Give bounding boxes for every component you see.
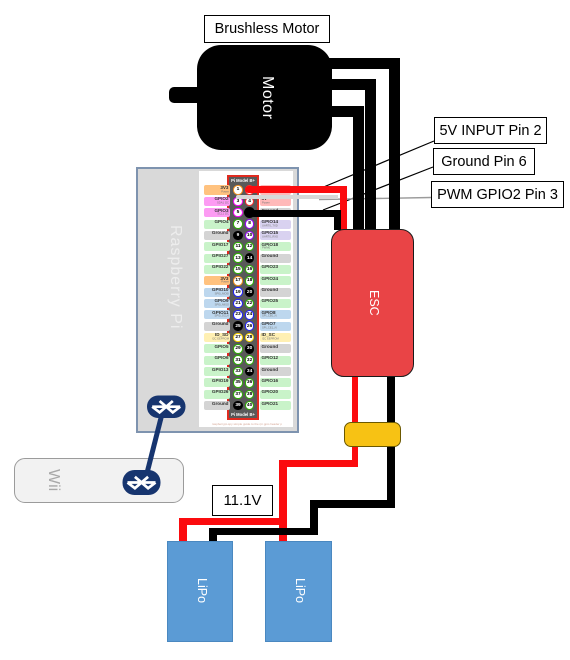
- pin 18: [245, 276, 255, 286]
- bullet connector (yellow): [344, 422, 402, 447]
- pin label right row 15: Ground: [260, 344, 291, 353]
- battery wire red: ESC to connector: [352, 377, 359, 467]
- Raspberry Pi board box: [136, 167, 299, 433]
- pin 39: [233, 401, 243, 411]
- motor phase wire 3 vertical: [353, 106, 364, 230]
- battery wire black: connector to corner: [387, 377, 395, 507]
- pin label left row 15: GPIO5: [204, 344, 231, 353]
- ground wire (black) from pin 6 horizontal: [250, 210, 341, 217]
- GPIO header column (red box): [227, 175, 259, 420]
- brushless motor label box: [204, 15, 330, 43]
- battery wire black: horizontal at y500: [310, 500, 395, 508]
- motor body: [197, 45, 332, 150]
- 5V wire (red) vertical to ESC: [340, 186, 347, 230]
- pin 27: [233, 333, 243, 343]
- pin 11: [233, 242, 243, 252]
- pin 12: [245, 242, 255, 252]
- Raspberry Pi label text: [164, 207, 184, 347]
- pin label left row 13: Ground: [204, 322, 231, 331]
- bluetooth link line: [147, 412, 163, 475]
- motor phase wire 3 horizontal: [325, 106, 364, 117]
- motor phase wire 1 horizontal: [325, 58, 400, 69]
- pin label right row 13: GPIO7: [260, 322, 291, 331]
- pin 17: [233, 276, 243, 286]
- pin label left row 17: GPIO13: [204, 367, 231, 376]
- pin 6 connection blob: [244, 207, 255, 218]
- bluetooth icon on Raspberry Pi: [147, 396, 186, 419]
- motor phase wire 1 vertical: [389, 58, 400, 230]
- LiPo battery left: [167, 541, 233, 642]
- battery wire black: vertical at x310: [310, 500, 318, 535]
- pin 32: [245, 355, 255, 365]
- pin 24: [245, 310, 255, 320]
- pin label left row 7: GPIO27: [204, 254, 231, 263]
- battery wire red: horizontal at y460: [279, 460, 358, 467]
- LiPo left label: [191, 570, 209, 612]
- motor shaft: [169, 87, 203, 103]
- pin 28: [245, 333, 255, 343]
- pin label right row 3: Ground: [260, 208, 291, 217]
- pin label right row 12: GPIO8: [260, 310, 291, 319]
- leader line for PWM GPIO2 Pin 3: [319, 198, 431, 200]
- pin label left row 14: ID_SD: [204, 333, 231, 342]
- pin label left row 9: 3V3: [204, 276, 231, 285]
- pin label left row 12: GPIO11: [204, 310, 231, 319]
- pin 8: [245, 219, 255, 229]
- pinout caption: [212, 422, 282, 426]
- pin label right row 6: GPIO18: [260, 242, 291, 251]
- battery wire red: vertical to right LiPo: [279, 460, 287, 542]
- signal wire (white/gray) from pin 3: [236, 195, 338, 199]
- pin 38: [245, 390, 255, 400]
- pin label right row 10: Ground: [260, 288, 291, 297]
- pin 21: [233, 299, 243, 309]
- pin 33: [233, 367, 243, 377]
- pin label left row 8: GPIO22: [204, 265, 231, 274]
- pin 3: [233, 197, 243, 207]
- pin 1: [233, 185, 243, 195]
- pin label right row 7: Ground: [260, 254, 291, 263]
- pin 37: [233, 390, 243, 400]
- battery wire black: horizontal at y527: [209, 528, 318, 536]
- motor phase wire 2 vertical: [365, 79, 376, 230]
- pin label right row 4: GPIO14: [260, 220, 291, 229]
- LiPo battery right: [265, 541, 332, 642]
- pin 16: [245, 265, 255, 275]
- leader line for Ground Pin 6: [323, 167, 433, 210]
- pin 9: [233, 231, 243, 241]
- pin 36: [245, 378, 255, 388]
- pin 14: [245, 253, 255, 263]
- pin 20: [245, 287, 255, 297]
- pin 23: [233, 310, 243, 320]
- pin label right row 16: GPIO12: [260, 356, 291, 365]
- pin label right row 20: GPIO21: [260, 401, 291, 410]
- leader line for 5V INPUT Pin 2: [320, 141, 434, 189]
- header title: Pi Model B+: [227, 178, 259, 183]
- pin 31: [233, 355, 243, 365]
- pin label right row 2: 5V: [260, 197, 291, 206]
- pin 26: [245, 321, 255, 331]
- pin label right row 5: GPIO15: [260, 231, 291, 240]
- 5V INPUT Pin 2 label box: [434, 117, 547, 144]
- battery wire red: branch horizontal at y517: [179, 518, 287, 525]
- pin label left row 19: GPIO26: [204, 390, 231, 399]
- 11.1V label box: [212, 485, 273, 516]
- pin label right row 18: GPIO16: [260, 378, 291, 387]
- 5V wire (red) from pin 2 horizontal: [245, 186, 347, 193]
- Wii remote box: [14, 458, 184, 503]
- Wii label: [43, 462, 62, 499]
- pin label right row 19: GPIO20: [260, 390, 291, 399]
- pin label left row 2: GPIO2: [204, 197, 231, 206]
- pin 29: [233, 344, 243, 354]
- pin label left row 11: GPIO9: [204, 299, 231, 308]
- pin 5: [233, 208, 243, 218]
- ground wire (black) vertical to ESC: [334, 210, 341, 231]
- ESC box: [331, 229, 414, 377]
- PWM GPIO2 Pin 3 label box: [431, 181, 564, 208]
- pin 19: [233, 287, 243, 297]
- LiPo right label: [289, 570, 307, 612]
- battery wire black: vertical to left LiPo: [209, 528, 217, 542]
- pin 25: [233, 321, 243, 331]
- pin label left row 1: 3V3: [204, 185, 231, 194]
- pin label left row 20: Ground: [204, 401, 231, 410]
- pin label left row 4: GPIO4: [204, 220, 231, 229]
- pin label right row 14: ID_SC: [260, 333, 291, 342]
- pin 34: [245, 367, 255, 377]
- header footer: Pi Model B+: [227, 412, 259, 417]
- pin label right row 11: GPIO25: [260, 299, 291, 308]
- pin label left row 5: Ground: [204, 231, 231, 240]
- pin 22: [245, 299, 255, 309]
- pin label right row 1: 5V: [260, 185, 291, 194]
- pin label right row 8: GPIO23: [260, 265, 291, 274]
- pin label left row 16: GPIO6: [204, 356, 231, 365]
- pin 15: [233, 265, 243, 275]
- GPIO pinout panel: [199, 171, 293, 427]
- Ground Pin 6 label box: [433, 148, 535, 175]
- pin 4: [245, 197, 255, 207]
- ESC label text: [363, 285, 381, 321]
- battery wire red: vertical to left LiPo: [179, 518, 187, 543]
- pin 10: [245, 231, 255, 241]
- pin 13: [233, 253, 243, 263]
- pin label left row 18: GPIO19: [204, 378, 231, 387]
- pin 40: [245, 401, 255, 411]
- pin label left row 6: GPIO17: [204, 242, 231, 251]
- pin label right row 9: GPIO24: [260, 276, 291, 285]
- pin label right row 17: Ground: [260, 367, 291, 376]
- motor label text: [256, 60, 276, 135]
- pin label left row 10: GPIO10: [204, 288, 231, 297]
- motor phase wire 2 horizontal: [325, 79, 376, 90]
- pin 6: [245, 208, 255, 218]
- pin label left row 3: GPIO3: [204, 208, 231, 217]
- bluetooth icon on Wii: [123, 470, 161, 495]
- pin 35: [233, 378, 243, 388]
- pin 7: [233, 219, 243, 229]
- pin 30: [245, 344, 255, 354]
- pin 2: [245, 185, 255, 195]
